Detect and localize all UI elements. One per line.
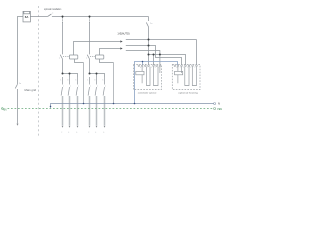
svg-text:N: N — [218, 102, 220, 106]
svg-text:PEN: PEN — [3, 110, 7, 112]
svg-text:5: 5 — [102, 80, 103, 82]
svg-text:1: 1 — [60, 80, 61, 82]
svg-text:x: x — [52, 13, 53, 15]
svg-text:2: 2 — [88, 132, 89, 134]
svg-text:4: 4 — [68, 132, 69, 134]
svg-text:2: 2 — [147, 67, 148, 69]
svg-text:6: 6 — [103, 132, 104, 134]
svg-text:optional installation: optional installation — [44, 7, 62, 11]
svg-text:PEN: PEN — [217, 107, 222, 111]
svg-text:3: 3 — [94, 80, 95, 82]
svg-text:6: 6 — [76, 132, 77, 134]
svg-text:x: x — [59, 58, 60, 60]
svg-text:1: 1 — [180, 67, 181, 69]
svg-text:5: 5 — [75, 80, 76, 82]
svg-text:1x: 1x — [19, 83, 21, 85]
svg-text:optional heating: optional heating — [178, 92, 198, 95]
svg-text:4: 4 — [155, 67, 156, 69]
svg-text:x: x — [86, 58, 87, 60]
svg-text:1-E(AUTO): 1-E(AUTO) — [117, 32, 129, 36]
svg-text:4: 4 — [95, 132, 96, 134]
svg-text:1x: 1x — [150, 23, 152, 25]
svg-text:1: 1 — [87, 80, 88, 82]
svg-text:3: 3 — [67, 80, 68, 82]
svg-text:2: 2 — [61, 132, 62, 134]
svg-text:Main grid: Main grid — [25, 88, 37, 92]
svg-text:N: N — [140, 67, 141, 69]
svg-text:N: N — [176, 67, 177, 69]
svg-text:zonneboiler optional: zonneboiler optional — [138, 92, 157, 95]
